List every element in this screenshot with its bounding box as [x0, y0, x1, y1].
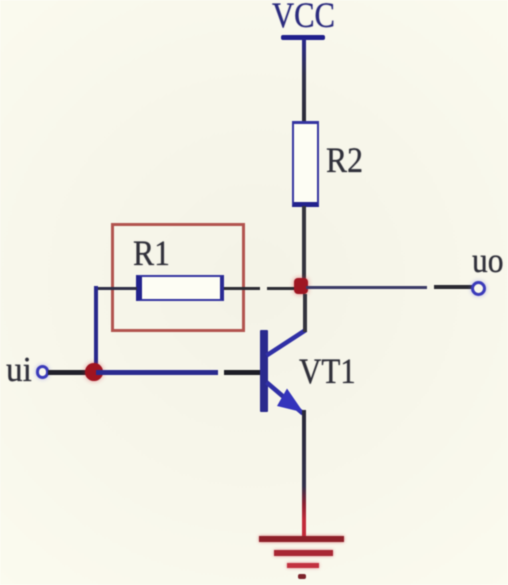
transistor VT1 emitter arrowhead — [277, 389, 304, 413]
wire emitter to ground — [302, 410, 306, 537]
wire ui terminal to input junction — [48, 370, 86, 375]
node input junction (red dot) — [85, 363, 103, 381]
ground bar 2 — [274, 550, 333, 555]
resistor R1 — [136, 275, 224, 302]
terminal ui (open circle) — [36, 365, 50, 379]
label R1 — [133, 235, 170, 271]
ground bar 4 — [298, 574, 307, 579]
power VCC rail bar — [281, 35, 325, 40]
label uo — [472, 243, 504, 278]
wire dash near uo (dark segment) — [434, 285, 472, 289]
node output junction (red dot) — [294, 278, 308, 295]
terminal uo (open circle) — [471, 281, 486, 296]
wire left corner to R1 left — [94, 287, 137, 290]
ground bar 3 — [287, 563, 319, 568]
wire left vertical (feedback) — [94, 286, 99, 370]
wire collector vertical (node to diagonal) — [303, 294, 307, 332]
wire VCC bar to R2 top — [302, 39, 306, 121]
resistor R2 — [292, 121, 319, 207]
label ui — [6, 352, 32, 387]
highlight box around R1 (red rectangle) — [111, 223, 245, 332]
ground bar 1 — [259, 536, 344, 542]
wire node to uo (navy segment) — [306, 286, 427, 289]
wire R1 right to dash gap — [224, 287, 261, 290]
wire dash to output node — [267, 287, 294, 291]
transistor VT1 base bar — [260, 330, 268, 412]
power net VCC label — [272, 0, 335, 33]
transistor VT1 collector diagonal — [267, 330, 307, 356]
label R2 — [326, 142, 363, 178]
label VT1 — [299, 353, 356, 389]
wire R2 bottom to output node — [302, 206, 306, 279]
wire to base (black segment) — [224, 370, 262, 375]
transistor VT1 emitter diagonal — [267, 382, 304, 413]
wire junction to base (navy segment) — [96, 370, 218, 374]
